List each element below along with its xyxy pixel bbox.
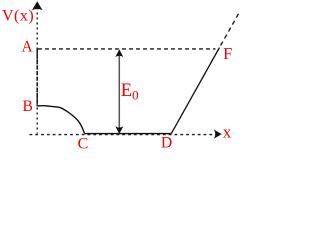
E0 arrow bottom head [115, 126, 123, 134]
svg-text:x: x [223, 123, 232, 142]
level-A horizontal dashed line [38, 48, 216, 50]
potential segment D-F (rising line) [171, 48, 219, 134]
svg-text:E0: E0 [121, 81, 139, 103]
svg-text:V(x): V(x) [2, 8, 34, 25]
segment A-B on y-axis (dense dashes) [36, 49, 38, 107]
dashed extension beyond F [221, 14, 239, 46]
svg-text:B: B [23, 98, 33, 115]
y-axis arrowhead [32, 1, 43, 10]
svg-text:A: A [22, 39, 34, 56]
x-axis arrowhead [214, 130, 222, 139]
svg-text:F: F [223, 44, 232, 63]
y-axis dashed line [36, 8, 38, 134]
E0 arrow shaft [118, 54, 120, 130]
potential curve B-C (arc) [38, 106, 85, 134]
svg-text:D: D [161, 135, 172, 152]
potential segment C-D [85, 133, 172, 135]
svg-text:C: C [78, 135, 89, 152]
x-axis dashed line [30, 134, 214, 136]
E0 arrow top head [115, 49, 123, 57]
